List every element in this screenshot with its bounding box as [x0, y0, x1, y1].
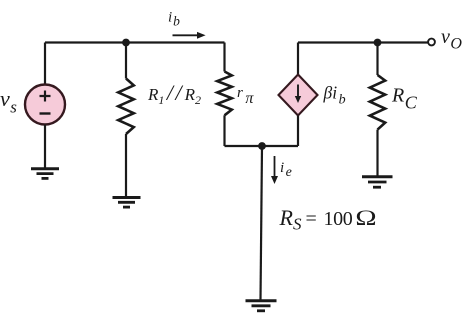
arrow: i_b current direction [173, 32, 206, 39]
ground: below R1//R2 [113, 198, 141, 208]
svg-text:Ω: Ω [355, 205, 377, 230]
resistor r_pi [217, 72, 232, 116]
ground: below vs [31, 169, 59, 179]
wire: bottom horizontal r_pi to diamond [225, 145, 299, 147]
svg-text:vs: vs [0, 86, 17, 117]
node: emitter junction [258, 142, 266, 150]
ground: below RC [362, 177, 393, 187]
wire: diamond bottom vertical [297, 116, 299, 147]
dependent current source beta*i_b [279, 75, 318, 116]
wire: diamond top vertical [297, 43, 299, 75]
wire: R1//R2 down to ground [125, 134, 127, 197]
wire: RC down to ground [376, 130, 378, 176]
ground: below RS wire [246, 301, 277, 311]
arrow: i_e current direction [271, 156, 278, 184]
svg-text:RS: RS [279, 205, 302, 234]
resistor R1//R2 [118, 79, 134, 135]
svg-text:100: 100 [324, 208, 353, 230]
wire: r_pi top vertical [223, 43, 225, 72]
wire: RC top vertical [376, 43, 378, 76]
node: junction at R1//R2 top [122, 39, 130, 47]
svg-text:vO: vO [441, 26, 462, 53]
node: junction at RC top [374, 39, 382, 47]
svg-text:RC: RC [391, 85, 418, 113]
wire: vs top vertical [44, 43, 46, 86]
wire: top right horizontal diamond to vO [298, 41, 428, 43]
wire: vs bottom vertical [44, 125, 46, 169]
wire: emitter down to ground RS [261, 146, 263, 300]
voltage source V_S [25, 85, 65, 125]
svg-text:βib: βib [323, 83, 346, 108]
svg-text:ie: ie [280, 160, 292, 180]
svg-text:ib: ib [168, 10, 180, 29]
terminal: vO open circle [428, 39, 435, 46]
resistor RC [370, 75, 385, 130]
wire: r_pi bottom vertical [223, 115, 225, 146]
wire: junction down to R1//R2 [125, 43, 127, 79]
svg-text:rπ: rπ [237, 85, 254, 107]
wire: top horizontal from vs to r_pi [45, 41, 225, 43]
svg-text:=: = [306, 208, 317, 230]
svg-text:R1//R2: R1//R2 [147, 80, 201, 107]
